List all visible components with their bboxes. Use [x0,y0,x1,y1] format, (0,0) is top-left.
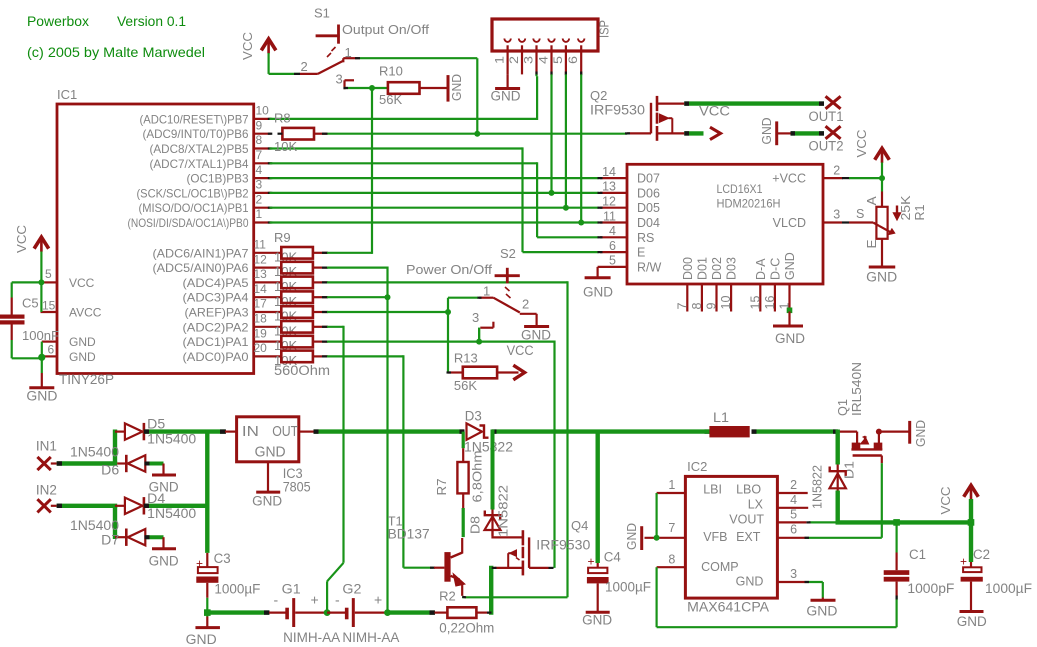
wire main rail D3 to L1 thick [492,429,710,433]
svg-text:GND: GND [775,331,805,346]
svg-text:GND: GND [583,285,613,300]
svg-text:R13: R13 [454,351,478,366]
wire PA0 net to T1 base [327,355,435,567]
wire COMP to C1 bottom [657,567,897,627]
svg-text:IN1: IN1 [36,439,57,454]
transistor T1 BD137 [388,514,465,596]
ground under R1 [866,267,897,285]
svg-text:100nF: 100nF [22,328,59,343]
battery G2 NIMH-AA [327,582,385,628]
LCD bottom pin names [681,252,797,280]
junction VOUT VCC [968,519,975,526]
svg-text:D-A: D-A [754,258,768,280]
IC3 pin stubs [225,431,314,433]
svg-text:(ADC4)PA5: (ADC4)PA5 [183,276,249,290]
ground at OUT2 (rotated) [759,118,791,146]
wire S1 pin3 to R10 and PA7 [344,87,388,89]
svg-text:GND: GND [255,445,286,461]
svg-text:7805: 7805 [283,480,311,495]
LCD pin +VCC name and number [772,164,849,186]
capacitor C3 1000uF [196,551,260,617]
svg-text:(ADC3)PA4: (ADC3)PA4 [183,291,249,305]
svg-text:(ADC0)PA0: (ADC0)PA0 [183,350,249,364]
ground at IC2 pin3 [806,598,837,619]
IC3 labels [283,466,311,495]
svg-text:Power On/Off: Power On/Off [406,262,492,277]
svg-text:GND: GND [449,74,464,101]
svg-text:4: 4 [609,224,616,238]
IC1 PB pin names [128,112,249,230]
svg-text:14: 14 [254,282,268,296]
IC1 left pin numbers [42,267,56,357]
transistor Q2 IRF9530 [590,88,684,141]
wire VCC to IC1 pin5 and AVCC [12,252,42,313]
resistor network R9 560Ohm [274,230,330,378]
svg-text:VCC: VCC [14,225,29,253]
svg-text:E: E [637,246,645,260]
svg-text:2: 2 [833,164,840,178]
antenna X OUT2 [809,126,844,153]
svg-text:2: 2 [256,192,263,206]
junction VCC pin5 [38,279,44,285]
wire VOUT rail thick [836,520,971,524]
capacitor C2 1000uF [960,547,1032,611]
wire PB2 net to LCD D06 [270,192,599,194]
svg-text:1N5400: 1N5400 [70,445,119,460]
svg-text:D6: D6 [101,463,119,478]
svg-text:AVCC: AVCC [69,306,102,320]
svg-text:GND: GND [957,614,987,629]
wire R1 A to VCC node [881,178,883,191]
potentiometer R1 25K [849,192,927,267]
svg-text:IRF9530: IRF9530 [536,538,590,553]
svg-text:2: 2 [790,478,797,492]
power VCC arrow at S1 [240,32,276,60]
svg-text:1N5822: 1N5822 [496,485,511,537]
svg-text:15: 15 [748,296,762,310]
wire VCC out thick [684,101,824,105]
svg-text:3: 3 [472,310,479,325]
wire rail branch to C4 thick [596,432,600,563]
svg-text:10: 10 [719,296,733,310]
junction PA1-S2pin3 [476,339,482,345]
svg-text:R7: R7 [434,479,449,496]
svg-text:5: 5 [45,267,52,281]
svg-text:(ADC10/RESET\)PB7: (ADC10/RESET\)PB7 [140,112,249,126]
svg-text:VCC: VCC [699,104,730,119]
svg-text:IN2: IN2 [36,483,57,498]
svg-text:R8: R8 [274,111,291,126]
wire OUT2 stub [791,131,825,135]
wire Q1 node to D1 thick [836,430,840,465]
resistor R7 6,8Ohm [434,448,485,508]
wire IN2 thick [57,506,117,539]
junction GND pins [38,354,45,361]
wire ISP pin6 to PB0 net [580,74,582,222]
switch S2 [472,246,537,328]
svg-text:4: 4 [256,163,263,177]
svg-text:D-C: D-C [768,258,782,280]
svg-text:LBO: LBO [736,483,761,497]
junction battery plus [384,609,391,616]
svg-text:GND: GND [521,328,551,343]
wire raw rail C3 vertical thick [205,430,209,553]
svg-text:GND: GND [69,350,96,364]
svg-text:4: 4 [790,493,797,507]
wire D8 cathode thick [491,430,495,510]
svg-text:GND: GND [69,335,96,349]
wire VCC arrow to rail thick [969,499,973,522]
LCD bottom pin stubs [687,284,789,312]
svg-text:8: 8 [668,552,675,566]
svg-text:Version 0.1: Version 0.1 [117,13,186,29]
svg-text:OUT1: OUT1 [809,109,844,124]
ground at Q1 (rotated) [879,420,928,447]
svg-text:GND: GND [252,494,282,509]
svg-text:GND: GND [913,420,928,447]
wire battery plus to R2 thick [388,610,436,614]
svg-text:Output On/Off: Output On/Off [342,22,429,37]
svg-text:6: 6 [790,523,797,537]
LCD R/W pin to ground [583,267,627,300]
svg-text:6,8Ohm: 6,8Ohm [470,451,485,503]
wire S1 pin1 to PB6 net [355,58,477,134]
svg-text:15: 15 [42,299,56,313]
svg-text:EXT: EXT [736,530,761,544]
svg-text:12: 12 [602,195,616,209]
capacitor C5 100nF [0,282,59,358]
svg-text:14: 14 [602,165,616,179]
svg-text:E: E [865,240,879,249]
svg-text:GND: GND [759,118,774,145]
svg-text:D3: D3 [465,409,482,424]
ground under LCD [773,312,805,347]
svg-text:G1: G1 [282,582,301,597]
svg-text:11: 11 [603,209,616,223]
resistor R2 0,22Ohm [435,589,495,636]
svg-text:(ADC5/AIN0)PA6: (ADC5/AIN0)PA6 [153,261,249,275]
svg-text:VFB: VFB [703,530,727,544]
svg-text:GND: GND [149,554,179,569]
ground under C2 [957,612,987,630]
IC2 pin numbers [668,478,797,581]
svg-text:(ADC6/AIN1)PA7: (ADC6/AIN1)PA7 [153,246,249,260]
svg-text:(ADC7/XTAL1)PB4: (ADC7/XTAL1)PB4 [150,157,249,171]
wire PB6 net R8 to Q2 gate [327,133,627,135]
junction PA6-PA4 [385,294,391,300]
power VCC arrow at output [938,485,978,514]
svg-text:BD137: BD137 [388,527,430,542]
diode D5 1N5400 [115,417,196,447]
antenna X OUT1 [809,96,844,124]
ground at S2 pin2 [521,327,551,343]
svg-text:25K: 25K [899,195,913,221]
wire PA6/PA4 net to battery G2+ [327,267,388,613]
wire IN1 thick [57,430,117,464]
svg-text:Powerbox: Powerbox [27,13,89,29]
svg-text:R2: R2 [439,589,456,604]
svg-text:NIMH-AA: NIMH-AA [342,630,399,645]
svg-text:10K: 10K [274,139,297,154]
svg-text:(OC1B)PB3: (OC1B)PB3 [187,172,249,186]
junction VOUT C1 [893,519,900,526]
svg-text:18: 18 [254,312,268,326]
svg-text:VOUT: VOUT [729,512,764,526]
diode D3 1N5822 [464,409,513,455]
inductor L1 [709,410,749,437]
svg-text:2: 2 [522,297,529,312]
wire S2 pin3 down [478,328,480,342]
wire IC2 GND pin [805,582,823,598]
antenna X IN2 [36,483,57,513]
wire T1 emitter to R2 node [462,596,491,599]
svg-text:(ADC1)PA1: (ADC1)PA1 [183,335,249,349]
junction PA3-S2-R13 [445,309,451,315]
svg-text:C4: C4 [604,550,621,565]
junction R10 node [369,85,375,91]
wire D6 to ground [145,462,164,466]
diode D7 1N5400 [70,518,145,548]
svg-text:56K: 56K [379,92,402,107]
junction ISP5 [563,205,569,211]
capacitor C4 1000uF [587,550,651,612]
svg-text:(AREF)PA3: (AREF)PA3 [185,306,249,320]
wire PB1 net to LCD D05 [270,207,599,209]
ground at D7 [149,537,179,568]
svg-text:-: - [335,592,340,608]
svg-text:(ADC9/INT0/T0)PB6: (ADC9/INT0/T0)PB6 [143,127,249,141]
svg-text:GND: GND [26,389,57,404]
svg-text:1: 1 [256,207,263,221]
svg-text:C3: C3 [214,551,231,566]
svg-text:+VCC: +VCC [772,172,806,186]
LCD bottom pin numbers [675,296,791,310]
wire Q2 drain stub [684,131,703,135]
svg-text:1000µF: 1000µF [605,580,651,595]
svg-text:-: - [274,592,279,608]
IC1 left pin names VCC AVCC GND GND [69,276,102,364]
svg-text:7: 7 [256,148,263,162]
svg-text:13: 13 [602,180,616,194]
svg-text:R9: R9 [274,230,291,245]
svg-text:+: + [374,592,382,608]
svg-text:2: 2 [507,56,521,64]
svg-text:2: 2 [301,59,308,74]
transistor Q1 IRL540N [835,362,882,463]
junction ISP6 [578,220,584,226]
svg-text:C5: C5 [22,296,39,311]
wire D4 to C3 node thick [144,504,210,508]
svg-text:VCC: VCC [69,276,95,290]
LCD left pin names [637,172,662,275]
wire EXT to Q1 gate [881,463,883,538]
svg-text:LX: LX [748,497,764,511]
wire ISP pin5 to PB1 net [565,74,567,207]
wire PB5 net to LCD E [270,147,599,252]
ground under IC1 [26,373,57,404]
ground at D6 [149,464,179,495]
antenna X IN1 [36,439,57,471]
svg-text:5: 5 [551,56,565,64]
LCD left pin numbers [602,165,616,268]
svg-text:5: 5 [790,508,797,522]
junction VFB [654,535,660,541]
IC1 PA pin names [153,246,249,364]
svg-text:GND: GND [582,612,612,627]
svg-text:12: 12 [254,252,268,266]
junction S1-R8 net [474,131,480,137]
svg-text:3: 3 [790,567,797,581]
svg-text:(ADC2)PA2: (ADC2)PA2 [183,320,249,334]
LCD pin VLCD name and number [773,208,849,231]
wire EXT to Q1 gate horizontal [805,537,882,539]
svg-text:IN: IN [242,424,259,440]
svg-text:5: 5 [609,254,616,268]
resistor R10 [379,64,447,108]
svg-text:VLCD: VLCD [773,216,806,230]
svg-text:Q4: Q4 [571,518,588,533]
wire ISP pin3 stub [535,74,537,76]
svg-text:17: 17 [254,297,268,311]
diode D4 1N5400 [115,491,196,521]
arrow out symbol at Q2 drain [710,127,721,139]
svg-text:TINY26P: TINY26P [59,372,114,387]
svg-text:1000µF: 1000µF [214,582,260,597]
ground under C4 [582,612,612,627]
wire rail to C2 thick [969,522,973,562]
svg-text:D5: D5 [147,417,165,432]
svg-text:COMP: COMP [701,560,739,574]
switch S1 [299,6,429,90]
svg-text:NIMH-AA: NIMH-AA [283,630,340,645]
svg-text:VCC: VCC [507,343,534,358]
svg-text:R/W: R/W [637,260,662,274]
svg-text:L1: L1 [713,410,729,425]
svg-text:S1: S1 [314,6,330,21]
wire D1 to VOUT row thick [836,491,840,525]
svg-text:D05: D05 [637,201,660,215]
junction C3-battery [204,609,211,616]
svg-text:OUT2: OUT2 [809,139,844,154]
power VCC arrow at IC1 [14,225,49,253]
svg-text:Q2: Q2 [590,88,607,103]
svg-text:1: 1 [483,284,490,299]
junction VCC-LCD2-R1 [879,175,885,181]
svg-text:GND: GND [186,632,217,647]
svg-text:VCC: VCC [938,487,953,515]
wire PB0 net to LCD D04 [270,221,599,223]
IC1 right pin stubs [254,119,282,357]
wire D3 anode to R7 [462,432,465,449]
ground at VFB (rotated) [624,523,642,550]
svg-text:(SCK/SCL/OC1B\)PB2: (SCK/SCL/OC1B\)PB2 [137,186,249,200]
svg-text:GND: GND [866,270,897,285]
wire PA7 net to R10/S1-3 [327,88,372,254]
IC2 pin names [701,483,764,589]
svg-text:9: 9 [705,303,719,310]
svg-text:GND: GND [806,604,837,619]
transistor Q4 IRF9530 [495,518,591,575]
svg-text:A: A [865,196,879,206]
svg-text:D02: D02 [710,257,724,280]
IC1 PB pin numbers [256,104,270,222]
wire D5 to IC3 IN thick [144,429,226,433]
svg-text:GND: GND [783,252,797,280]
IC2 pin stubs [645,493,809,582]
ground at R10 (rotated) [448,74,464,102]
svg-text:Q1: Q1 [835,399,850,416]
svg-text:R10: R10 [379,64,403,79]
svg-text:1000µF: 1000µF [985,581,1032,596]
wire Q4 source thick vertical [489,566,493,615]
wire VOUT pin to rail [806,521,835,523]
ISP pins 1-6 [493,39,585,76]
LCD left pin stubs [598,178,628,252]
power VCC arrow right at R13 [507,343,534,380]
svg-text:19: 19 [254,326,268,340]
resistor R8 [274,111,328,155]
svg-text:VCC: VCC [240,32,255,60]
diode D6 1N5400 [70,445,145,478]
ground at IC3 [252,462,282,509]
regulator IC3 7805 body [237,417,299,462]
svg-text:VCC: VCC [854,130,869,158]
power VCC arrow at LCD [854,130,889,163]
wire D8 to Q4 [493,531,523,538]
svg-text:8: 8 [256,133,263,147]
svg-text:D00: D00 [681,257,695,280]
svg-text:D01: D01 [695,257,709,280]
svg-text:4: 4 [537,56,551,64]
svg-text:560Ohm: 560Ohm [274,363,330,378]
svg-text:IRL540N: IRL540N [849,362,864,416]
svg-text:C1: C1 [909,547,926,562]
wire PA2 net to battery mid [327,326,344,613]
battery G1 NIMH-AA [274,582,328,628]
svg-text:ISP: ISP [597,20,612,38]
svg-text:LCD16X1: LCD16X1 [717,184,763,196]
wire ISP pin4 to PB2 net [550,74,552,192]
wire VCC to S1 pin2 [269,53,300,74]
wire C1 to COMP net [895,596,897,628]
svg-text:1N5400: 1N5400 [147,506,196,521]
svg-text:16: 16 [763,296,777,310]
svg-text:3: 3 [336,72,343,87]
wire main rail IC3-OUT to D3 thick [314,429,710,433]
wire PB3 net to LCD D07 [270,177,599,179]
svg-text:11: 11 [254,238,267,252]
svg-text:(NOSI/DI/SDA/OC1A\)PB0: (NOSI/DI/SDA/OC1A\)PB0 [128,216,249,230]
svg-text:S2: S2 [500,246,516,261]
junction ISP4 [549,190,555,196]
IC1 left pin stubs [41,282,58,356]
diode D8 1N5822 [468,485,511,537]
svg-text:D03: D03 [725,257,739,280]
ground at ISP pin1 [491,74,521,103]
svg-text:6: 6 [48,343,55,357]
svg-text:D7: D7 [101,533,119,548]
wire C5 bottom to IC1 GND pins [12,342,42,373]
svg-text:D8: D8 [468,516,483,534]
svg-text:MAX641CPA: MAX641CPA [687,600,769,615]
wire PA1 net to S2-3 and Q4 gate [327,328,555,568]
svg-text:1000pF: 1000pF [907,581,954,596]
svg-text:10: 10 [256,104,270,118]
svg-text:G2: G2 [342,582,361,597]
svg-text:1: 1 [668,478,675,492]
svg-text:R1: R1 [913,204,927,220]
svg-text:S: S [856,207,864,221]
